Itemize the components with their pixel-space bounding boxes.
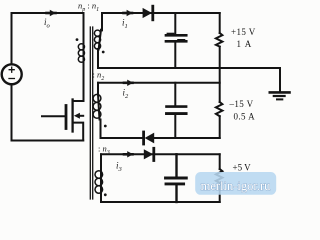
polarity dot secondary n1 bbox=[102, 51, 105, 54]
svg-text:+5 V: +5 V bbox=[233, 163, 252, 173]
svg-text:0.5 A: 0.5 A bbox=[234, 112, 256, 122]
resistor R1 (+15V load) bbox=[219, 13, 221, 33]
polarity dot primary bbox=[76, 38, 79, 41]
ground bbox=[279, 68, 281, 91]
MOSFET Q1 channel bar bbox=[71, 100, 73, 132]
diode D1 bbox=[143, 8, 152, 18]
MOSFET Q1 gate lead bbox=[42, 115, 64, 117]
wire secondary-1 output rail bbox=[102, 12, 220, 14]
MOSFET Q1 source lead bbox=[74, 123, 84, 141]
svg-text:1 A: 1 A bbox=[237, 39, 253, 49]
capacitor C3 bbox=[175, 154, 177, 176]
polarity dot secondary n3 bbox=[104, 193, 107, 196]
wire left column upper (source top) bbox=[11, 13, 13, 64]
capacitor C2 bbox=[174, 83, 176, 106]
wire common rail (ground rail) bbox=[98, 67, 280, 69]
wire secondary-2 bottom rail bbox=[101, 137, 220, 139]
transformer core bbox=[90, 27, 92, 199]
transformer secondary winding n1 bbox=[98, 13, 102, 68]
MOSFET Q1 body arrow bbox=[78, 115, 83, 117]
current arrow i_o bbox=[47, 12, 56, 15]
resistor R3 (+5V load) bbox=[219, 154, 221, 169]
wire secondary-3 top rail bbox=[101, 153, 220, 155]
current arrow i1 bbox=[124, 12, 133, 15]
wire bottom-left rail (to MOSFET source) bbox=[12, 140, 84, 142]
current arrow i2 bbox=[124, 82, 133, 85]
transformer secondary winding n3 bbox=[100, 154, 102, 202]
svg-text:+15 V: +15 V bbox=[231, 27, 256, 37]
resistor R2 (-15V load) bbox=[216, 102, 223, 116]
transformer primary winding np bbox=[83, 13, 85, 44]
transformer secondary winding n2 bbox=[98, 83, 101, 138]
svg-text:–15 V: –15 V bbox=[229, 99, 254, 109]
svg-text:merlin-igor.ru: merlin-igor.ru bbox=[201, 179, 272, 193]
voltage source Vd bbox=[2, 64, 22, 84]
MOSFET Q1 drain lead bbox=[74, 62, 84, 101]
capacitor C1 bbox=[174, 13, 176, 34]
MOSFET Q1 gate bar bbox=[65, 106, 68, 129]
diode D3 bbox=[144, 149, 153, 159]
watermark merlin-igor.ru bbox=[195, 172, 276, 195]
wire secondary-2 top rail bbox=[98, 82, 220, 84]
wire top-left rail (source to primary) bbox=[12, 12, 84, 14]
current arrow i3 bbox=[124, 153, 133, 156]
diode D2 (points left) bbox=[142, 132, 145, 144]
polarity dot secondary n2 bbox=[104, 125, 107, 128]
wire left column lower (source bottom) bbox=[11, 84, 13, 141]
wire secondary-3 bottom rail bbox=[101, 201, 220, 203]
